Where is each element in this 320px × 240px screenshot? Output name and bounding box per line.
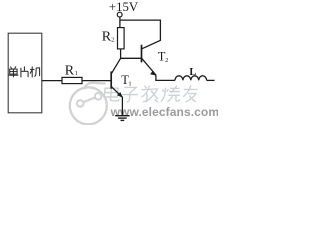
wire: Rb bottom to node: [120, 49, 122, 58]
svg-text:L: L: [189, 67, 196, 78]
node wire to T2 base: [120, 57, 141, 59]
T1 emitter arrow: [117, 92, 123, 98]
wire: T2 emitter down and right to inductor: [156, 75, 175, 81]
label 单片机 (drawn glyphs): [8, 66, 39, 77]
T2 emitter arrow: [150, 71, 156, 76]
机: [30, 66, 40, 77]
烧: [161, 86, 181, 102]
ground: [115, 116, 129, 121]
svg-text:2: 2: [165, 57, 168, 64]
wire: T1 emitter to ground: [121, 97, 123, 116]
transistor T1: [111, 58, 122, 97]
友: [182, 85, 198, 102]
发: [140, 85, 160, 102]
wire: inductor to output: [207, 79, 215, 81]
transistor T2: [142, 45, 156, 75]
svg-text:+15V: +15V: [109, 0, 139, 14]
svg-text:1: 1: [128, 81, 131, 88]
inductor L: [175, 76, 207, 81]
resistor Rb: [118, 28, 125, 49]
wire: R1 to T1 base: [82, 80, 111, 82]
svg-text:www.elecfans.com: www.elecfans.com: [110, 105, 218, 119]
supply rail to T2 collector: [120, 20, 160, 49]
子: [121, 87, 139, 101]
wire: box to R1: [42, 80, 62, 82]
svg-text:2: 2: [111, 37, 114, 44]
watermark logo (elecfans circle): [70, 83, 107, 125]
单: [8, 66, 18, 77]
电: [104, 85, 121, 101]
片: [21, 66, 28, 77]
svg-text:R: R: [65, 63, 75, 78]
MCU box 单片机: [8, 33, 42, 113]
resistor R1: [62, 77, 82, 83]
wire: terminal down to Rb: [119, 17, 121, 28]
svg-text:1: 1: [75, 70, 78, 77]
watermark text 电子发烧友 (approx glyph shapes): [104, 85, 198, 102]
